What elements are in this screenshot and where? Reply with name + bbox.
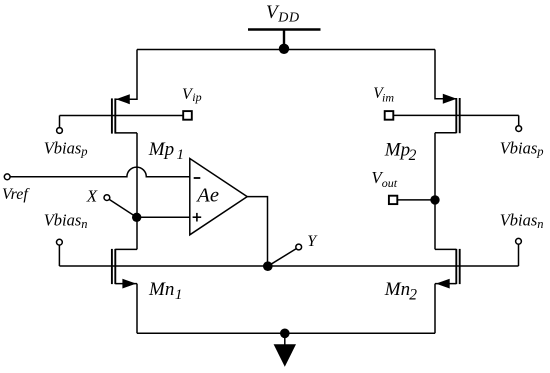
svg-text:out: out	[382, 176, 398, 190]
label Vout	[371, 168, 397, 190]
label Mp2	[384, 140, 417, 164]
wire Mp2 gate rail	[393, 114, 518, 116]
wire Vbias_n right stub	[518, 244, 520, 266]
wire bottom gate rail	[59, 265, 518, 267]
svg-text:DD: DD	[277, 11, 299, 26]
wire Mp1 gate rail	[60, 115, 184, 117]
wire Y diagonal	[268, 249, 297, 267]
transistor Mn1	[112, 249, 137, 289]
svg-text:ip: ip	[192, 90, 201, 104]
svg-text:1: 1	[177, 147, 185, 163]
node ground junction dot	[280, 329, 290, 339]
svg-text:Mp: Mp	[148, 139, 174, 160]
svg-text:Ae: Ae	[195, 185, 219, 207]
wire Mn1 source lead	[136, 284, 138, 334]
terminal X circle	[104, 195, 110, 201]
svg-text:im: im	[382, 90, 394, 104]
op-amp Ae	[190, 159, 247, 235]
terminal Vip square	[183, 111, 192, 120]
svg-text:p: p	[536, 145, 543, 159]
wire Vbias_p right stub	[518, 115, 520, 125]
wire Mp1 source lead	[115, 50, 137, 100]
terminal Vbias_n left circle	[57, 239, 63, 245]
wire Mp2 source lead	[435, 50, 456, 99]
label Vbias_n left	[44, 211, 88, 232]
svg-text:p: p	[80, 145, 87, 159]
label Vip	[182, 86, 202, 104]
wire Vref to op-amp with hop	[10, 167, 190, 177]
terminal Vbias_p right circle	[516, 126, 522, 132]
node Y junction dot	[263, 261, 273, 271]
terminal Vbias_p left circle	[57, 128, 63, 134]
svg-text:Vbias: Vbias	[500, 139, 538, 158]
node X junction dot	[132, 213, 141, 222]
svg-text:X: X	[86, 186, 98, 205]
svg-text:Mn: Mn	[148, 279, 174, 300]
wire Mp2 drain vertical	[434, 133, 436, 250]
svg-text:2: 2	[409, 147, 417, 164]
wire Mp1 drain vertical	[136, 133, 138, 250]
wire X diagonal	[109, 199, 137, 217]
label Vim	[373, 85, 394, 104]
svg-text:2: 2	[409, 286, 417, 303]
svg-text:Mn: Mn	[384, 279, 410, 300]
transistor Mn2	[435, 249, 460, 289]
svg-text:Vref: Vref	[2, 186, 30, 203]
transistor Mp2	[435, 94, 460, 133]
wire Vbias_p left stub	[59, 116, 61, 128]
node VDD junction dot	[279, 44, 289, 54]
svg-text:Vbias: Vbias	[500, 211, 538, 230]
terminal Vref circle	[4, 174, 10, 180]
label Mn1	[148, 279, 182, 303]
wire top rail	[137, 49, 435, 51]
label Vbias_p left	[44, 139, 88, 159]
wire bottom rail	[137, 332, 435, 334]
label Mn2	[384, 279, 418, 304]
terminal Y circle	[296, 244, 302, 250]
svg-text:Vbias: Vbias	[44, 139, 82, 158]
label Mp1	[148, 139, 184, 163]
wire Vout lead	[397, 199, 435, 201]
terminal Vout square	[389, 196, 397, 204]
node Vout junction dot	[430, 195, 439, 204]
label Vbias_p right	[500, 139, 544, 159]
svg-text:Mp: Mp	[384, 140, 410, 161]
svg-text:Vbias: Vbias	[44, 211, 82, 230]
label VDD	[266, 2, 300, 26]
svg-text:n: n	[81, 217, 87, 231]
power symbol VDD bar	[248, 30, 321, 49]
wire Mn2 source lead	[434, 284, 436, 334]
svg-text:1: 1	[175, 287, 183, 303]
wire op-amp plus input	[137, 216, 190, 218]
svg-text:n: n	[537, 217, 543, 231]
wire op-amp output	[247, 197, 267, 266]
wire Vbias_n left stub	[58, 245, 60, 266]
terminal Vbias_n right circle	[516, 238, 522, 244]
label Vbias_n right	[500, 211, 544, 232]
transistor Mp1	[112, 94, 137, 133]
terminal Vim square	[385, 111, 394, 120]
ground	[274, 333, 296, 367]
